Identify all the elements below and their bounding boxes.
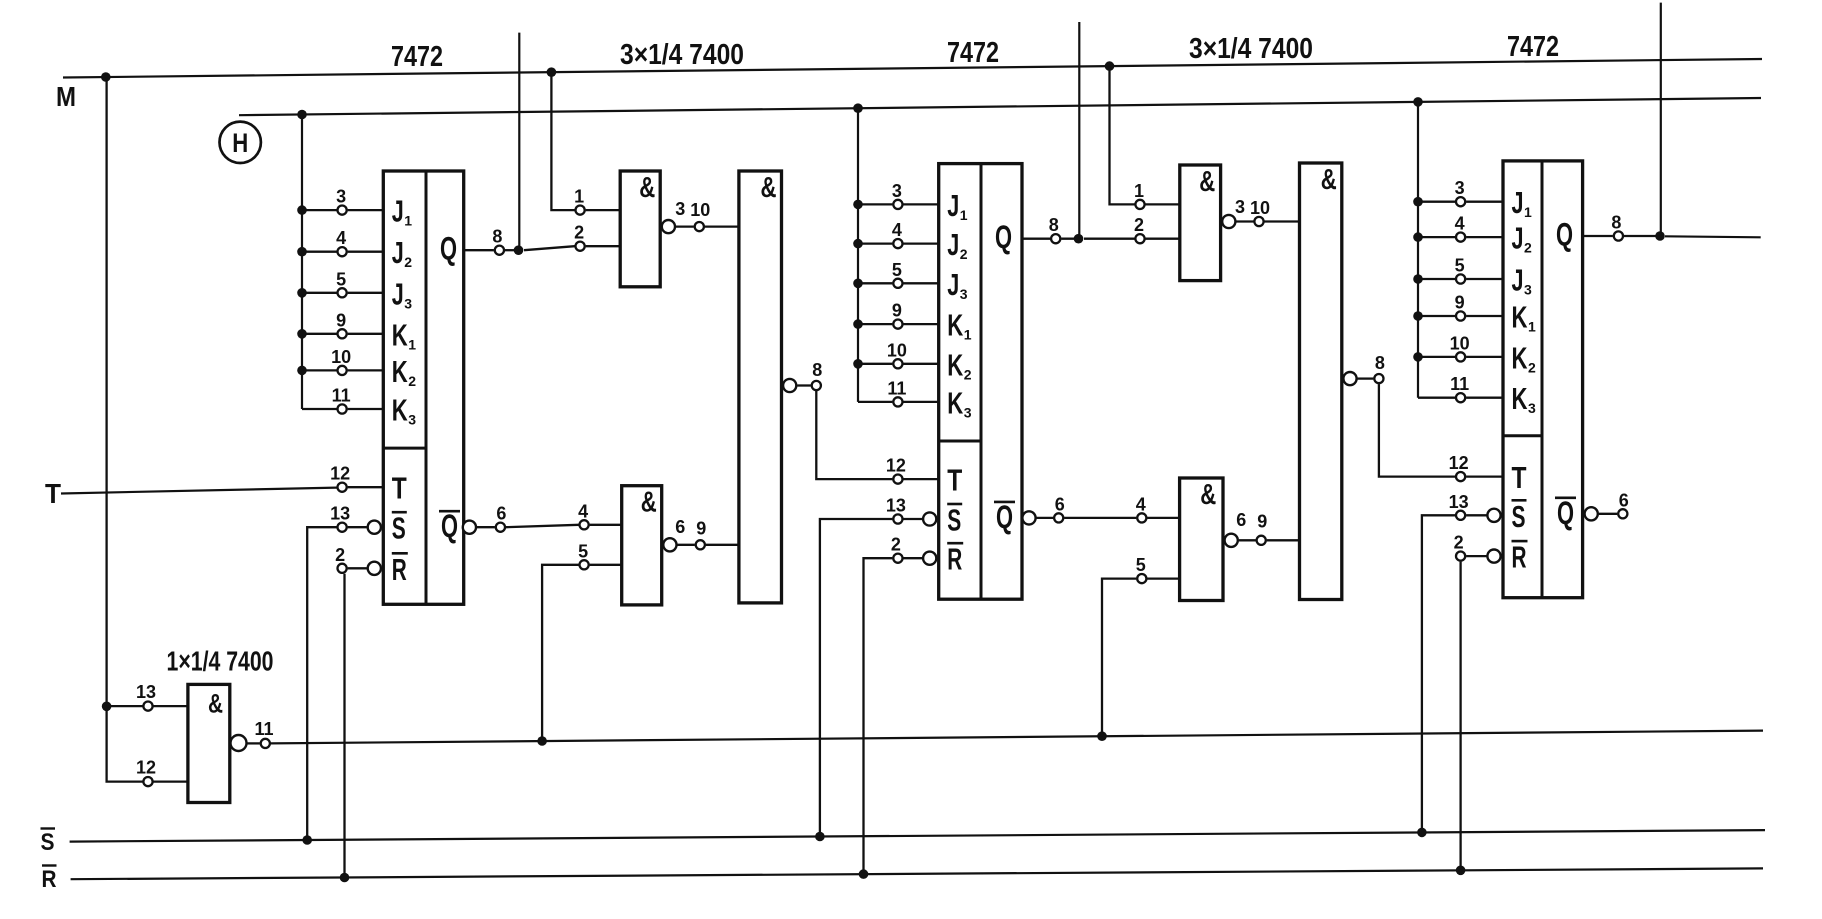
svg-text:Q: Q: [440, 231, 457, 267]
svg-text:Q: Q: [441, 508, 458, 544]
output bubble U2a: [662, 220, 675, 233]
nand gate U5: [188, 684, 230, 802]
svg-text:2: 2: [1528, 359, 1536, 375]
wire Q-bar to U2b pin 4: [506, 525, 579, 527]
wire U3 Q output: [1022, 238, 1050, 240]
label Q-bar inside U1: [439, 508, 460, 544]
junction node Q2: [1074, 234, 1084, 244]
wire node Q1 riser: [518, 33, 520, 251]
junction M bus / U5 feed: [101, 72, 111, 82]
pin number 2: [891, 535, 901, 555]
svg-text:2: 2: [1454, 533, 1464, 553]
inversion bubble U1 S-bar: [368, 521, 381, 534]
label J1 inside U1: [392, 194, 413, 229]
pin circle U2c.8: [812, 381, 821, 390]
junction N11 / U2b pin 5: [537, 736, 547, 746]
pin circle U2a.3: [695, 222, 704, 231]
wire net S-bar bus: [70, 830, 1765, 842]
svg-text:9: 9: [696, 519, 706, 539]
pin number 4: [1136, 494, 1146, 514]
junction J/K bus U6 pin 9: [1413, 311, 1423, 321]
svg-text:8: 8: [812, 360, 822, 380]
svg-text:K: K: [947, 308, 963, 343]
label Q-bar inside U3: [994, 499, 1015, 535]
svg-text:T: T: [1512, 460, 1527, 495]
pin number 8: [812, 360, 822, 380]
pin number 11: [887, 378, 906, 398]
pin number 12: [1449, 453, 1469, 473]
svg-text:2: 2: [404, 254, 412, 270]
junction M bus / U2a pin 1: [547, 67, 557, 77]
svg-text:3: 3: [404, 295, 412, 311]
pin circle U3.2: [893, 554, 902, 563]
inversion bubble U1 Q-bar: [463, 521, 476, 534]
pin number 3: [1235, 197, 1245, 217]
pin number 4: [336, 228, 346, 248]
pin number 3: [336, 187, 346, 207]
pin circle U6.12: [1456, 472, 1465, 481]
pin circle U3.9: [893, 320, 902, 329]
nand gate U2b: [622, 486, 662, 605]
wire M to U4a pin 1: [1110, 66, 1135, 204]
svg-text:3: 3: [1528, 400, 1536, 416]
inversion bubble U6 S-bar: [1487, 509, 1500, 522]
svg-text:2: 2: [1524, 240, 1532, 256]
pin number 8: [492, 227, 502, 247]
svg-text:13: 13: [1449, 492, 1469, 512]
junction S bus stage 2: [815, 832, 825, 842]
net label R-bar: [42, 866, 57, 894]
junction J/K bus U1 pin 4: [297, 247, 307, 257]
pin circle U1.6: [496, 523, 505, 532]
svg-text:J: J: [392, 276, 404, 311]
svg-text:4: 4: [1455, 214, 1465, 234]
wire U3 R-bar stub: [903, 557, 922, 559]
junction J/K bus U1 pin 3: [297, 205, 307, 215]
svg-text:4: 4: [578, 501, 588, 521]
pin number 6: [675, 517, 685, 537]
wire U6 pin 5 stub: [1418, 278, 1503, 280]
wire U2a bubble link: [676, 225, 694, 227]
svg-text:S: S: [947, 503, 961, 538]
wire net N11 (U5 output bus): [271, 731, 1763, 744]
svg-text:10: 10: [331, 347, 351, 367]
pin number 9: [1455, 293, 1465, 313]
svg-text:2: 2: [960, 246, 968, 262]
svg-text:7472: 7472: [391, 41, 443, 73]
label Q inside U3: [995, 219, 1012, 255]
value label 1x1/4 7400 (U5): [167, 646, 274, 677]
svg-text:T: T: [45, 478, 61, 509]
label J3 inside U1: [392, 276, 413, 311]
wire to U5 pin 13: [107, 705, 143, 707]
wire U1 Q to junction: [505, 249, 519, 251]
svg-text:K: K: [392, 317, 408, 352]
pin circle U1.9: [338, 329, 347, 338]
wire U4b bubble link: [1239, 539, 1256, 541]
wire U1 S-bar to S bus: [307, 527, 336, 840]
junction J/K bus U3 pin 9: [853, 319, 863, 329]
svg-text:K: K: [392, 354, 408, 389]
junction S bus stage 1: [302, 835, 312, 845]
pin circle U2a.1: [576, 206, 585, 215]
pin circle U1.10: [338, 366, 347, 375]
pin circle U1.11: [338, 404, 347, 413]
svg-text:12: 12: [330, 464, 350, 484]
svg-text:3×1/4 7400: 3×1/4 7400: [620, 39, 744, 71]
pin number 10: [1450, 333, 1470, 353]
wire U6 pin 9 stub: [1418, 315, 1503, 317]
pin circle U6.11: [1456, 393, 1465, 402]
wire N11 to U4b pin 5: [1102, 579, 1136, 737]
svg-text:1×1/4 7400: 1×1/4 7400: [167, 646, 274, 677]
svg-text:3: 3: [675, 199, 685, 219]
svg-text:8: 8: [1049, 215, 1059, 235]
svg-text:S: S: [41, 829, 55, 856]
svg-text:2: 2: [574, 223, 584, 243]
pin circle U2b.5: [580, 560, 589, 569]
wire U2a pin 1 stub: [586, 209, 621, 211]
wire U6 pin 3 stub: [1418, 201, 1503, 203]
junction node Q1: [514, 245, 524, 255]
wire U4c bubble link: [1358, 377, 1374, 379]
svg-text:K: K: [947, 347, 963, 382]
wire U4a bubble link: [1236, 220, 1253, 222]
wire U3 pin 4 stub: [858, 242, 939, 244]
pin circle U6.3: [1456, 197, 1465, 206]
svg-text:13: 13: [330, 504, 350, 524]
wire U3 pin 9 stub: [858, 323, 939, 325]
pin circle U6.5: [1456, 274, 1465, 283]
junction H bus / U6 feed: [1413, 97, 1423, 107]
svg-text:H: H: [232, 128, 248, 158]
pin number 9: [892, 301, 902, 321]
pin number 8: [1049, 215, 1059, 235]
svg-text:J: J: [1512, 263, 1524, 298]
svg-text:3: 3: [336, 187, 346, 207]
pin circle U1.5: [338, 288, 347, 297]
nand gate U4b: [1180, 478, 1223, 601]
svg-text:1: 1: [408, 336, 416, 352]
label J1 inside U6: [1512, 185, 1533, 220]
pin number 6: [496, 504, 506, 524]
junction J/K bus U3 pin 3: [853, 200, 863, 210]
wire U6 S-bar to S bus: [1422, 515, 1455, 832]
wire U1 R-bar to R bus: [343, 574, 345, 878]
svg-text:10: 10: [887, 340, 907, 360]
wire U1 pin 11 stub: [302, 408, 383, 410]
svg-text:3: 3: [964, 404, 972, 420]
wire U1 Q output: [464, 249, 494, 251]
wire Q-bar to U4b pin 4: [1064, 517, 1136, 519]
pin circle U2b.4: [580, 520, 589, 529]
wire M to U2a pin 1: [551, 72, 574, 210]
label S-bar inside U1: [392, 511, 407, 546]
pin number 13: [886, 496, 906, 516]
svg-text:1: 1: [1134, 181, 1144, 201]
svg-text:5: 5: [578, 541, 588, 561]
pin circle U3.8: [1051, 234, 1060, 243]
svg-text:M: M: [56, 81, 76, 112]
label K1 inside U1: [392, 317, 417, 352]
wire N11 to U2b pin 5: [542, 565, 579, 741]
svg-text:5: 5: [892, 260, 902, 280]
flip-flop U1 (7472) body: [383, 171, 463, 604]
pin circle U6.2: [1456, 552, 1465, 561]
label J3 inside U6: [1512, 263, 1533, 298]
junction J/K bus U3 pin 10: [853, 359, 863, 369]
wire U3 pin 3 stub: [858, 203, 939, 205]
pin number 12: [330, 464, 350, 484]
pin number 10: [887, 340, 907, 360]
pin circle U6.6: [1618, 509, 1627, 518]
svg-text:9: 9: [1455, 293, 1465, 313]
wire U1 pin 9 stub: [302, 333, 383, 335]
pin number 2: [1134, 215, 1144, 235]
pin circle U6.8: [1614, 231, 1623, 240]
wire U4a pin 2 stub: [1146, 238, 1180, 240]
svg-text:12: 12: [886, 456, 906, 476]
wire U2b pin 5 stub: [590, 564, 622, 566]
value label 7472 (U3): [947, 37, 999, 69]
wire U3 Q to junction: [1061, 238, 1078, 240]
svg-text:13: 13: [886, 496, 906, 516]
svg-text:S: S: [392, 511, 406, 546]
pin circle U4b.5: [1137, 574, 1146, 583]
pin number 4: [892, 220, 902, 240]
value label 7472 (U6): [1507, 31, 1559, 63]
pin number 2: [335, 545, 345, 565]
svg-text:3: 3: [960, 286, 968, 302]
svg-text:J: J: [947, 267, 959, 302]
svg-text:J: J: [947, 227, 959, 262]
wire U6 Q-bar bubble link: [1599, 513, 1618, 515]
nand gate U2a: [620, 171, 660, 287]
svg-text:Q: Q: [996, 499, 1013, 535]
value label 7472 (U1): [391, 41, 443, 73]
pin number 10: [1250, 198, 1270, 218]
pin number 11: [332, 386, 351, 406]
wire U1 S-bar stub: [348, 526, 367, 528]
wire U4c output to T pin 12: [1379, 384, 1455, 477]
pin number 6: [1055, 494, 1065, 514]
nand gate U4a: [1180, 165, 1221, 281]
wire U4a to U4c: [1265, 220, 1300, 222]
junction R bus stage 1: [340, 873, 350, 883]
pin number 4: [578, 501, 588, 521]
pin circle U3.13: [893, 514, 902, 523]
junction U5 pin 13 branch: [102, 702, 112, 712]
svg-text:9: 9: [1257, 512, 1267, 532]
svg-text:13: 13: [136, 682, 156, 702]
inversion bubble U3 Q-bar: [1022, 511, 1035, 524]
wire H feed bus U3: [857, 108, 859, 402]
svg-text:8: 8: [492, 227, 502, 247]
nand gate U4c: [1300, 163, 1342, 600]
wire U6 pin 11 stub: [1418, 397, 1503, 399]
wire net H bus: [239, 98, 1761, 115]
label J2 inside U3: [947, 227, 968, 262]
wire U1 Q-bar bubble link: [477, 526, 495, 528]
svg-text:T: T: [947, 463, 962, 498]
net label T: [45, 478, 61, 509]
pin circle U2a.2: [576, 242, 585, 251]
svg-text:10: 10: [690, 200, 710, 220]
label K2 inside U6: [1512, 340, 1537, 375]
svg-text:4: 4: [336, 228, 346, 248]
wire U1 pin 10 stub: [302, 369, 383, 371]
value label 3x1/4 7400 (U2): [620, 39, 744, 71]
wire U3 pin 10 stub: [858, 363, 939, 365]
svg-text:9: 9: [892, 301, 902, 321]
svg-text:5: 5: [336, 269, 346, 289]
wire U5 pin 12 stub: [154, 780, 188, 782]
pin number 4: [1455, 214, 1465, 234]
pin circle U6.10: [1456, 352, 1465, 361]
wire H feed bus U1: [301, 115, 303, 410]
svg-text:3: 3: [1524, 282, 1532, 298]
svg-text:Q: Q: [1556, 217, 1573, 253]
svg-text:&: &: [1200, 479, 1216, 511]
pin number 13: [1449, 492, 1469, 512]
svg-text:3×1/4 7400: 3×1/4 7400: [1189, 33, 1313, 65]
pin circle U4a.3: [1254, 217, 1263, 226]
pin circle U1.13: [338, 523, 347, 532]
junction J/K bus U1 pin 9: [297, 329, 307, 339]
wire U2b pin 4 stub: [590, 524, 622, 526]
label Q inside U6: [1556, 217, 1573, 253]
svg-text:S: S: [1512, 499, 1526, 534]
pin circle U4b.6: [1257, 536, 1266, 545]
pin number 3: [1455, 178, 1465, 198]
svg-text:R: R: [1512, 540, 1527, 575]
svg-text:J: J: [392, 235, 404, 270]
pin circle U5.12: [143, 777, 152, 786]
wire U1 T stub: [348, 486, 384, 488]
svg-text:1: 1: [574, 187, 584, 207]
pin number 5: [1455, 256, 1465, 276]
wire U1 pin 4 stub: [302, 251, 383, 253]
svg-text:7472: 7472: [1507, 31, 1559, 63]
nand gate U2c: [739, 171, 782, 603]
pin number 1: [1134, 181, 1144, 201]
wire U4b pin 5 stub: [1147, 577, 1179, 579]
pin circle U6.9: [1456, 311, 1465, 320]
wire U3 pin 5 stub: [858, 282, 939, 284]
svg-text:5: 5: [1455, 256, 1465, 276]
wire net M bus: [63, 59, 1762, 78]
label K3 inside U6: [1512, 381, 1537, 416]
junction node Q3: [1655, 231, 1665, 241]
label K2 inside U3: [947, 347, 972, 382]
junction J/K bus U1 pin 10: [297, 366, 307, 376]
pin number 3: [892, 181, 902, 201]
wire U4b pin 4 stub: [1147, 517, 1179, 519]
wire U3 S-bar to S bus: [820, 519, 893, 837]
svg-text:3: 3: [1455, 178, 1465, 198]
wire node Q3 riser: [1660, 3, 1662, 236]
svg-text:2: 2: [408, 373, 416, 389]
wire U6 S-bar stub: [1466, 514, 1486, 516]
pin number 8: [1375, 353, 1385, 373]
svg-text:&: &: [641, 487, 657, 519]
junction J/K bus U1 pin 5: [297, 288, 307, 298]
svg-text:T: T: [392, 471, 407, 506]
label Q-bar inside U6: [1555, 495, 1576, 531]
svg-text:K: K: [1512, 300, 1528, 335]
svg-text:2: 2: [964, 366, 972, 382]
label K1 inside U3: [947, 308, 972, 343]
pin number 13: [330, 504, 350, 524]
label J2 inside U1: [392, 235, 413, 270]
svg-text:J: J: [1512, 185, 1524, 220]
pin number 9: [336, 310, 346, 330]
pin number 11: [254, 719, 273, 739]
pin number 5: [892, 260, 902, 280]
svg-text:11: 11: [887, 378, 906, 398]
wire U2b bubble link: [677, 544, 694, 546]
svg-text:J: J: [947, 188, 959, 223]
junction J/K bus U6 pin 10: [1413, 352, 1423, 362]
inversion bubble U1 R-bar: [368, 562, 381, 575]
wire H feed bus U6: [1417, 102, 1419, 398]
svg-text:R: R: [42, 866, 57, 893]
svg-text:1: 1: [964, 327, 972, 343]
pin number 6: [1236, 510, 1246, 530]
pin circle U3.11: [893, 397, 902, 406]
wire U6 R-bar stub: [1466, 555, 1486, 557]
wire U4b to U4c: [1267, 539, 1300, 541]
svg-text:2: 2: [1134, 215, 1144, 235]
pin circle U4a.1: [1135, 200, 1144, 209]
pin number 11: [1450, 374, 1469, 394]
junction J/K bus U6 pin 3: [1413, 197, 1423, 207]
svg-text:J: J: [392, 194, 404, 229]
pin circle U3.10: [893, 359, 902, 368]
label T inside U1: [392, 471, 407, 506]
svg-text:&: &: [1199, 166, 1215, 198]
svg-text:R: R: [392, 552, 407, 587]
svg-text:11: 11: [1450, 374, 1469, 394]
svg-text:1: 1: [404, 213, 412, 229]
wire U6 R-bar to R bus: [1459, 562, 1461, 871]
svg-text:Q: Q: [1557, 495, 1574, 531]
svg-text:K: K: [947, 385, 963, 420]
junction M bus / U4a pin 1: [1105, 61, 1115, 71]
pin circle U1.3: [338, 206, 347, 215]
label J3 inside U3: [947, 267, 968, 302]
svg-text:7472: 7472: [947, 37, 999, 69]
wire U2a pin 2 stub: [586, 245, 621, 247]
pin circle U3.4: [893, 239, 902, 248]
svg-text:K: K: [392, 393, 408, 428]
wire U6 pin 10 stub: [1418, 356, 1503, 358]
output bubble U5: [231, 735, 247, 751]
label R-bar inside U6: [1512, 540, 1528, 575]
pin number 3: [675, 199, 685, 219]
junction R bus stage 3: [1456, 866, 1466, 876]
wire U3 T stub: [903, 478, 938, 480]
wire Q to U2a pin 2: [524, 246, 575, 250]
pin circle U3.5: [893, 279, 902, 288]
svg-text:1: 1: [960, 207, 968, 223]
pin number 9: [696, 519, 706, 539]
inversion bubble U6 Q-bar: [1585, 507, 1598, 520]
wire U3 S-bar stub: [903, 518, 922, 520]
pin number 12: [136, 758, 156, 778]
svg-text:Q: Q: [995, 219, 1012, 255]
pin circle U4a.2: [1135, 234, 1144, 243]
